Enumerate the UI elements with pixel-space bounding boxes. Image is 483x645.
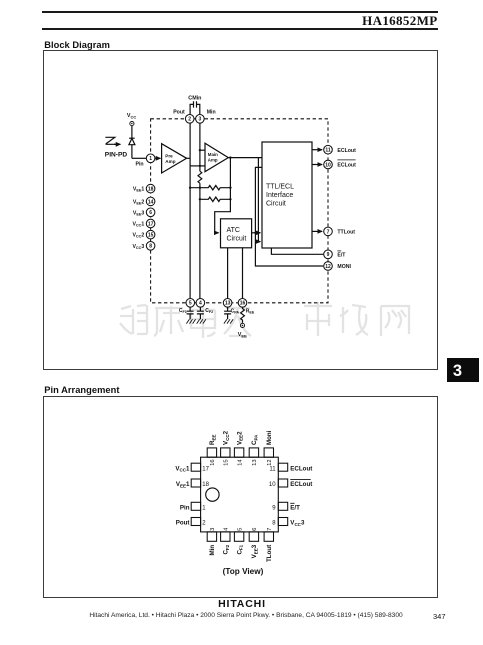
svg-text:VCC3: VCC3 (132, 244, 144, 250)
wire pre-amp output to node A (187, 157, 191, 159)
svg-text:Circuit: Circuit (227, 235, 247, 242)
svg-text:CF1: CF1 (179, 308, 187, 314)
svg-text:Amp: Amp (208, 157, 218, 162)
pin 11 stub (278, 463, 287, 471)
header rule bottom (42, 28, 438, 30)
svg-text:9: 9 (272, 506, 276, 512)
wire pin9 E/T to box (271, 248, 323, 254)
pin 15 stub (221, 448, 230, 457)
svg-text:VEE1: VEE1 (176, 481, 190, 488)
svg-text:VCC1: VCC1 (175, 465, 190, 472)
svg-text:15: 15 (224, 459, 230, 465)
IC package body (201, 457, 279, 532)
svg-text:4: 4 (199, 301, 202, 307)
svg-text:CF2: CF2 (223, 544, 230, 554)
pin 2 stub (191, 518, 200, 526)
pin 2 Pout (185, 115, 194, 124)
svg-text:Pout: Pout (173, 109, 185, 115)
svg-text:9: 9 (327, 252, 330, 258)
svg-text:12: 12 (267, 459, 273, 465)
pin 6 stub (249, 532, 258, 541)
wire box to pin11 (312, 149, 322, 151)
svg-text:12: 12 (325, 264, 331, 270)
capacitor CPA (224, 307, 240, 324)
svg-text:11: 11 (325, 148, 331, 154)
svg-text:Min: Min (209, 545, 216, 556)
svg-text:CF1: CF1 (236, 544, 243, 554)
svg-text:5: 5 (189, 301, 192, 307)
pin 12 stub (264, 448, 273, 457)
pin labels: left side (175, 465, 190, 526)
svg-text:5: 5 (237, 528, 243, 531)
wire vertical B upper: pin3 down to resistor (199, 123, 201, 171)
pin 14 stub (234, 448, 243, 457)
pin 9 E/T (324, 250, 333, 259)
svg-text:ECLout: ECLout (290, 481, 312, 488)
light-input arrows (105, 137, 120, 144)
VEE terminal (238, 323, 247, 338)
op-amp Pre Amp (162, 144, 187, 173)
wire ATC to pin13 (227, 248, 229, 299)
header rule top (42, 11, 438, 13)
pin 9 stub (278, 502, 287, 510)
svg-text:(Top View): (Top View) (223, 567, 264, 576)
pin 1 stub (191, 502, 200, 510)
pin numbers (148, 117, 331, 307)
node labels (132, 109, 356, 270)
wire vertical B lower: resistor down to pin4 (199, 183, 201, 298)
svg-text:3: 3 (199, 117, 202, 123)
op-amp Main Amp (205, 143, 228, 172)
svg-text:Pout: Pout (176, 520, 190, 527)
svg-text:CMin: CMin (188, 96, 201, 102)
pin 10 /ECLout (324, 160, 333, 169)
pin 6 VEE3 (146, 208, 155, 217)
svg-text:E/T: E/T (337, 252, 346, 258)
wire ATC output to TTL/ECL box (252, 232, 261, 234)
svg-text:18: 18 (202, 482, 209, 488)
svg-text:1: 1 (149, 156, 152, 162)
svg-text:VEE: VEE (238, 332, 247, 338)
svg-text:VEE2: VEE2 (236, 431, 243, 445)
svg-text:VCC1: VCC1 (132, 222, 144, 228)
pin circles (146, 115, 332, 308)
capacitor CF1 (179, 307, 196, 324)
svg-text:ECLout: ECLout (337, 163, 356, 169)
svg-text:Min: Min (207, 109, 216, 115)
section title: Pin Arrangement (44, 385, 119, 395)
pin 15 VCC2 (146, 230, 155, 239)
svg-text:Main: Main (208, 152, 218, 157)
pin 7 TTLout (324, 227, 333, 236)
pin numbers: bottom row (rotated) (210, 527, 273, 531)
svg-text:MONI: MONI (337, 264, 351, 270)
pin 4 CF2 (196, 299, 205, 308)
svg-text:REE: REE (209, 435, 216, 445)
pin 16 stub (207, 448, 216, 457)
footer page number (433, 612, 446, 621)
pin 5 stub (234, 532, 243, 541)
svg-text:13: 13 (225, 301, 231, 307)
node junction at B/-input (199, 165, 201, 167)
svg-text:VCC2: VCC2 (223, 430, 230, 445)
wire stub node A to main-amp - input (190, 165, 205, 167)
pin labels: bottom row (rotated) (209, 544, 273, 562)
node V1/ATC junction (254, 232, 256, 234)
pin 8 stub (278, 518, 287, 526)
svg-text:Pre: Pre (165, 154, 173, 159)
resistor (series in B) (198, 171, 202, 183)
wire stub to main-amp + input (200, 149, 205, 151)
svg-text:ATC: ATC (227, 227, 240, 234)
svg-text:VCC3: VCC3 (290, 520, 305, 527)
wire main-amp output to TTL/ECL box (228, 157, 262, 159)
svg-text:Moni: Moni (266, 430, 273, 445)
svg-text:11: 11 (269, 466, 276, 472)
svg-text:14: 14 (237, 459, 243, 466)
svg-text:18: 18 (148, 187, 154, 193)
svg-text:Circuit: Circuit (266, 201, 286, 208)
svg-text:7: 7 (267, 528, 273, 531)
svg-text:Pin: Pin (180, 505, 190, 512)
svg-text:2: 2 (188, 117, 191, 123)
pin-1 index circle (206, 488, 219, 501)
svg-text:1: 1 (202, 506, 206, 512)
svg-text:VCC: VCC (127, 113, 136, 119)
pin 11 ECLout (324, 145, 333, 154)
svg-text:TLout: TLout (266, 545, 273, 562)
photodiode D (PIN-PD) (129, 138, 135, 158)
svg-text:ECLout: ECLout (337, 148, 356, 154)
wire photodiode to pin 1 (132, 157, 146, 159)
pin 16 REE (238, 299, 247, 308)
pin 4 stub (221, 532, 230, 541)
IC boundary (dashed) (151, 119, 328, 303)
block diagram frame (43, 50, 439, 371)
svg-text:10: 10 (325, 162, 331, 168)
svg-text:8: 8 (149, 244, 152, 250)
pin 1 Pin (146, 154, 155, 163)
svg-text:Amp: Amp (165, 159, 175, 164)
svg-text:VEE1: VEE1 (133, 187, 145, 193)
svg-text:7: 7 (327, 229, 330, 235)
pin numbers: right column (269, 466, 276, 526)
wire Vcc to photodiode (131, 126, 133, 138)
capacitor CMin (188, 96, 201, 115)
pin 13 CPA (223, 299, 232, 308)
wire box to pin10 (312, 164, 322, 166)
svg-text:17: 17 (148, 221, 154, 227)
wire pin1 to pre-amp (arrow) (155, 157, 160, 159)
svg-text:VEE3: VEE3 (133, 210, 145, 216)
svg-text:17: 17 (202, 466, 209, 472)
package pins (stubs) (191, 448, 287, 541)
wire output down to ATC (with jog) (215, 158, 231, 233)
footer logo HITACHI (0, 598, 483, 610)
svg-text:ECLout: ECLout (290, 465, 312, 472)
svg-text:16: 16 (210, 459, 216, 465)
svg-text:14: 14 (148, 199, 154, 205)
pin numbers: left column (202, 466, 209, 526)
svg-text:Pin: Pin (136, 162, 144, 168)
title HA16852MP (0, 13, 438, 29)
pin 18 VEE1 (146, 184, 155, 193)
pin 3 Min (196, 115, 205, 124)
wire vertical A: pin2 down to pin5 (189, 123, 191, 298)
pin 3 stub (207, 532, 216, 541)
svg-text:2: 2 (202, 521, 206, 527)
pin labels: right side (290, 465, 312, 527)
svg-text:13: 13 (252, 459, 258, 465)
pin labels: top row (rotated) (209, 430, 273, 445)
svg-text:8: 8 (272, 521, 276, 527)
svg-text:6: 6 (252, 528, 258, 531)
pin 10 stub (278, 479, 287, 487)
svg-text:CF2: CF2 (205, 308, 213, 314)
svg-text:Interface: Interface (266, 192, 293, 199)
pin arrangement frame (43, 396, 439, 598)
section tab 3 (447, 358, 479, 382)
pin 18 stub (191, 479, 200, 487)
pin 5 CF1 (186, 299, 195, 308)
svg-text:TTLout: TTLout (337, 230, 355, 236)
node junction at B/+input (199, 149, 201, 151)
svg-text:CPA: CPA (231, 309, 240, 315)
svg-text:10: 10 (269, 482, 276, 488)
capacitor CF2 (197, 307, 214, 324)
block ATC Circuit (221, 219, 252, 248)
svg-text:TTL/ECL: TTL/ECL (266, 183, 294, 190)
svg-text:VCC2: VCC2 (132, 233, 144, 239)
resistor R feedback 1 (189, 186, 232, 190)
pin numbers: top row (rotated) (210, 459, 273, 466)
svg-text:4: 4 (224, 527, 230, 531)
svg-text:6: 6 (149, 210, 152, 216)
pin 17 stub (191, 463, 200, 471)
block TTL/ECL Interface Circuit (262, 142, 312, 248)
svg-text:VEE2: VEE2 (133, 199, 145, 205)
pin 13 stub (249, 448, 258, 457)
wire ATC to pin16 (242, 248, 244, 299)
svg-text:CPA: CPA (251, 434, 258, 445)
footer address (0, 612, 483, 619)
pin 12 MONI (324, 262, 333, 271)
svg-text:15: 15 (148, 233, 154, 239)
Vcc terminal (127, 113, 136, 126)
svg-text:VEE3: VEE3 (251, 544, 258, 558)
pin 17 VCC1 (146, 219, 155, 228)
section title: Block Diagram (44, 40, 110, 50)
resistor R feedback 2 (199, 197, 232, 201)
svg-text:E/T: E/T (290, 505, 300, 512)
svg-text:REE: REE (246, 309, 255, 315)
resistor REE (241, 307, 255, 323)
pin 7 stub (264, 532, 273, 541)
pin 8 VCC3 (146, 242, 155, 251)
pin 14 VEE2 (146, 197, 155, 206)
node main-amp output (229, 156, 231, 158)
svg-text:16: 16 (240, 301, 246, 307)
wire feedback V1 from box to ATC line / MONI (255, 167, 323, 266)
wire box to pin7 (312, 230, 322, 232)
svg-text:3: 3 (210, 528, 216, 531)
wire V2 from output node down into box (258, 158, 260, 242)
svg-text:PIN-PD: PIN-PD (105, 151, 128, 158)
